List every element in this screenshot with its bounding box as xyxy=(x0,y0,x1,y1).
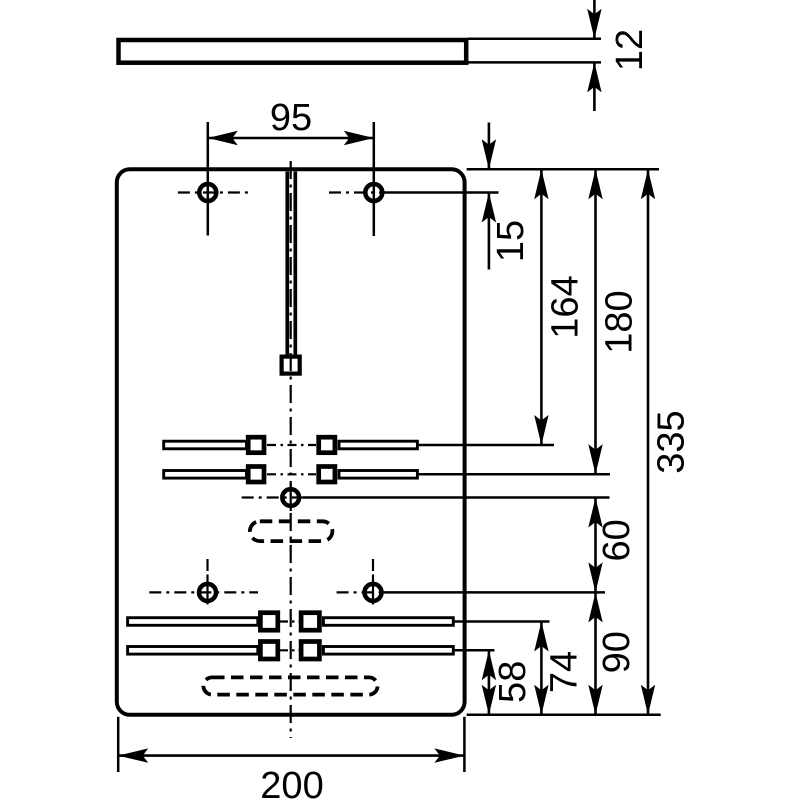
svg-text:164: 164 xyxy=(545,275,587,338)
svg-text:180: 180 xyxy=(598,290,640,353)
svg-text:60: 60 xyxy=(596,519,638,561)
svg-text:58: 58 xyxy=(492,661,534,703)
svg-text:95: 95 xyxy=(270,97,312,139)
svg-text:335: 335 xyxy=(651,410,693,473)
svg-text:15: 15 xyxy=(490,220,532,262)
svg-text:12: 12 xyxy=(609,29,651,71)
svg-text:90: 90 xyxy=(596,631,638,673)
svg-text:74: 74 xyxy=(544,651,586,693)
svg-text:200: 200 xyxy=(260,765,323,800)
